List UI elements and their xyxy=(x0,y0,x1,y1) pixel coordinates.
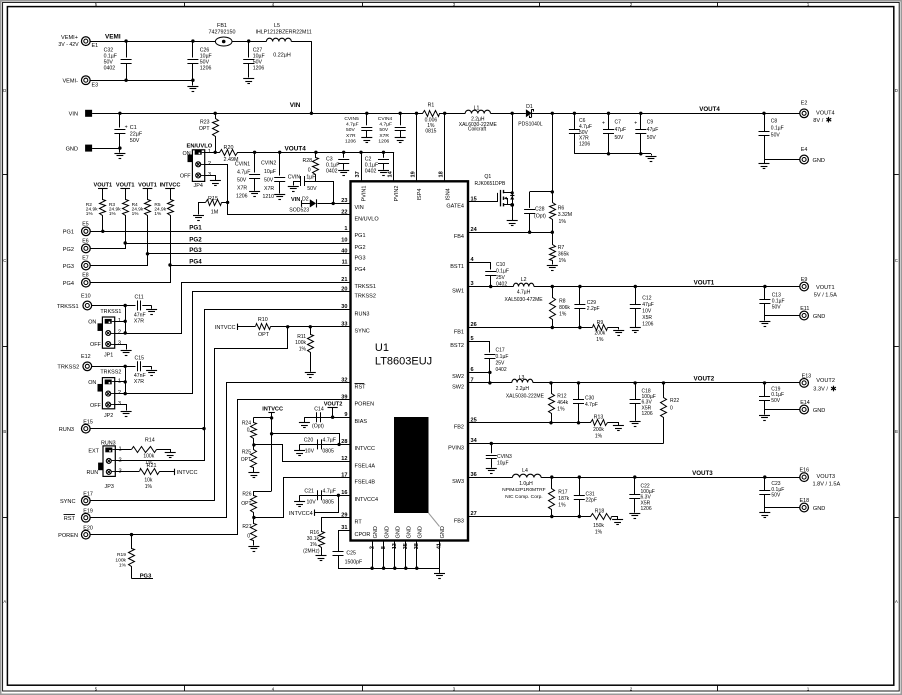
svg-text:1%: 1% xyxy=(299,347,307,353)
svg-text:R17: R17 xyxy=(558,490,567,496)
svg-text:GND: GND xyxy=(440,526,446,538)
junction R23/JP4.1 xyxy=(214,151,217,154)
resistor R21 xyxy=(140,463,160,490)
svg-text:1206: 1206 xyxy=(345,138,356,144)
ground R11 xyxy=(305,373,316,378)
capacitor C19 xyxy=(759,383,784,410)
ground C3 xyxy=(338,171,349,176)
resistor R2 xyxy=(86,189,106,232)
net label VOUT1 xyxy=(694,279,715,286)
svg-text:R1: R1 xyxy=(428,103,435,109)
testpoint E1 xyxy=(81,37,98,49)
svg-text:RST: RST xyxy=(64,516,76,522)
capacitor CVIN3 xyxy=(486,444,512,468)
junction R15/EN route xyxy=(226,201,229,204)
ground Q1 source xyxy=(507,221,518,226)
testpoint E5 xyxy=(82,221,91,235)
svg-text:806k: 806k xyxy=(559,305,570,311)
wire CVIN to ground xyxy=(294,182,301,186)
svg-text:FSEL4A: FSEL4A xyxy=(355,463,376,469)
svg-text:VOUT1: VOUT1 xyxy=(694,279,715,286)
svg-text:GND: GND xyxy=(813,158,825,164)
junction R8/FB1 xyxy=(551,326,554,329)
ground R14 xyxy=(165,453,176,458)
svg-text:SW2: SW2 xyxy=(452,385,464,391)
net label EN/UVLO xyxy=(187,143,213,149)
svg-text:1: 1 xyxy=(118,318,121,324)
svg-text:0: 0 xyxy=(247,533,250,539)
svg-text:1206: 1206 xyxy=(642,411,653,417)
svg-text:4.7µF: 4.7µF xyxy=(323,489,336,495)
svg-text:16: 16 xyxy=(341,490,347,496)
svg-text:1500pF: 1500pF xyxy=(345,560,363,566)
svg-text:E7: E7 xyxy=(82,256,88,262)
wire PVIN1 stub xyxy=(359,151,362,182)
svg-text:TRKSS1: TRKSS1 xyxy=(57,304,79,310)
ground C13 xyxy=(759,316,770,327)
svg-text:1%: 1% xyxy=(558,503,566,509)
svg-text:CVIN2: CVIN2 xyxy=(261,161,276,167)
junction R24/R25 xyxy=(252,443,255,446)
capacitor C6 xyxy=(569,113,592,154)
diode D2 xyxy=(289,196,316,213)
wire E12 row xyxy=(92,366,136,368)
U1 left pin names/numbers xyxy=(341,198,379,538)
capacitor C8 xyxy=(759,113,784,159)
node RUN3 label xyxy=(59,427,74,433)
svg-text:TRKSS2: TRKSS2 xyxy=(355,293,376,299)
svg-text:C8: C8 xyxy=(771,119,778,125)
wire GND pin8 xyxy=(382,541,385,570)
power tap VOUT1 for R4 xyxy=(138,182,157,188)
wire R6 riser xyxy=(552,113,554,202)
svg-text:8V /: 8V / xyxy=(813,118,823,124)
wire PVIN3 xyxy=(468,443,664,445)
svg-text:ON: ON xyxy=(88,380,96,386)
svg-text:39: 39 xyxy=(341,394,347,400)
node VOUT3 labels xyxy=(813,474,841,488)
svg-text:EN/UVLO: EN/UVLO xyxy=(355,217,380,223)
svg-text:C10: C10 xyxy=(496,262,505,268)
svg-text:INTVCC: INTVCC xyxy=(177,470,198,476)
capacitor CVIN1 xyxy=(235,152,260,199)
svg-text:C: C xyxy=(895,258,898,263)
svg-text:50V: 50V xyxy=(615,135,625,141)
svg-text:10V: 10V xyxy=(642,309,652,315)
svg-text:XAL5030-472ME: XAL5030-472ME xyxy=(505,297,544,303)
svg-text:29: 29 xyxy=(341,513,347,519)
svg-text:FB1: FB1 xyxy=(454,329,464,335)
capacitor C14 xyxy=(304,407,350,430)
diode D1 schottky xyxy=(518,104,542,127)
resistor R9 xyxy=(593,320,608,343)
svg-text:OPT: OPT xyxy=(199,126,210,132)
svg-text:INTVCC: INTVCC xyxy=(215,325,236,331)
power tap INTVCC xyxy=(262,406,283,412)
ground JP2 pin3 xyxy=(121,412,132,417)
testpoint E8 xyxy=(82,273,91,287)
wire VOUT3 rail xyxy=(541,477,800,479)
svg-text:E2: E2 xyxy=(801,101,808,107)
svg-text:E17: E17 xyxy=(83,492,93,498)
jumper JP3 xyxy=(87,440,122,490)
svg-text:E8: E8 xyxy=(82,273,88,279)
wire R18 to ground xyxy=(612,517,618,520)
resistor R26 xyxy=(241,492,256,518)
svg-text:D: D xyxy=(3,88,6,93)
svg-text:B: B xyxy=(895,429,898,434)
svg-text:38: 38 xyxy=(414,543,420,549)
svg-text:VOUT2: VOUT2 xyxy=(694,375,715,382)
svg-text:1%: 1% xyxy=(595,433,603,439)
wire PVIN2 stub xyxy=(393,152,395,181)
svg-text:E18: E18 xyxy=(800,498,810,504)
testpoint E19 xyxy=(81,509,92,522)
junction pin16/C21 xyxy=(337,494,340,497)
svg-text:365k: 365k xyxy=(558,252,570,258)
junction C18 top xyxy=(633,381,636,384)
svg-text:Q1: Q1 xyxy=(484,174,491,180)
svg-text:FB4: FB4 xyxy=(454,234,464,240)
svg-text:200k: 200k xyxy=(593,427,604,433)
junction C30/FB2 xyxy=(577,421,580,424)
svg-text:VOUT2: VOUT2 xyxy=(324,402,343,408)
svg-text:PG4: PG4 xyxy=(63,281,74,287)
svg-text:10V: 10V xyxy=(305,449,315,455)
wire BST1 to C10 xyxy=(469,263,491,270)
junction JP1.1/riser xyxy=(124,320,127,323)
svg-text:1210: 1210 xyxy=(263,194,275,200)
svg-text:0402: 0402 xyxy=(496,367,507,373)
junction SYNC/stair xyxy=(286,325,289,328)
resistor R22 xyxy=(661,383,680,444)
testpoint E15 xyxy=(81,420,92,433)
junction R8/SW1 xyxy=(551,285,554,288)
wire SW3 xyxy=(468,477,512,479)
svg-text:CVIN5: CVIN5 xyxy=(344,116,359,122)
junction CVIN4/VIN rail xyxy=(399,112,402,115)
junction CVIN2/rail xyxy=(278,151,281,154)
svg-text:ON: ON xyxy=(183,151,191,157)
junction SW2 tie xyxy=(488,371,491,374)
wire SYNC staircase xyxy=(215,327,288,501)
U1 right pin names/numbers xyxy=(446,197,477,525)
svg-text:EXT: EXT xyxy=(88,448,99,454)
svg-text:CVIN3: CVIN3 xyxy=(497,454,512,460)
svg-text:E20: E20 xyxy=(83,526,93,532)
wire FB1 xyxy=(468,327,592,329)
resistor R19 xyxy=(115,535,134,579)
resistor R14 xyxy=(132,438,157,467)
svg-text:22: 22 xyxy=(341,210,347,216)
svg-text:1206: 1206 xyxy=(236,194,248,200)
junction C23 top xyxy=(763,475,766,478)
svg-text:18: 18 xyxy=(439,171,445,177)
svg-text:L4: L4 xyxy=(522,468,528,474)
svg-text:36: 36 xyxy=(471,472,477,478)
svg-text:1%: 1% xyxy=(109,211,117,217)
svg-text:RT: RT xyxy=(355,520,363,526)
wire R11 to ground xyxy=(310,355,312,372)
svg-text:CVIN1: CVIN1 xyxy=(235,162,250,168)
svg-text:1%: 1% xyxy=(557,407,565,413)
svg-text:1µF: 1µF xyxy=(306,175,315,181)
junction C2/rail xyxy=(382,151,385,154)
svg-text:40: 40 xyxy=(341,249,347,255)
svg-text:TRKSS1: TRKSS1 xyxy=(355,284,376,290)
svg-text:FB2: FB2 xyxy=(454,425,464,431)
capacitor C9 polarized xyxy=(634,113,658,154)
node VOUT1 labels xyxy=(814,285,837,299)
wire JP1 pin3 ground xyxy=(115,345,127,350)
svg-text:50V: 50V xyxy=(307,186,317,192)
svg-text:PDS1040L: PDS1040L xyxy=(518,121,542,127)
svg-text:E16: E16 xyxy=(800,468,810,474)
node TRKSS2 label xyxy=(57,365,79,371)
wire JP4 pin1 to R20 xyxy=(205,152,220,154)
wire JP3 pin3 to R21 xyxy=(115,471,139,473)
ground C23 xyxy=(759,508,770,518)
net flag VIN at D2 xyxy=(291,197,302,207)
wire L5 to VIN rail xyxy=(311,41,313,113)
wire R13 to ground xyxy=(608,423,619,426)
junction C8 xyxy=(762,112,765,115)
svg-text:R13: R13 xyxy=(594,414,604,420)
svg-text:0: 0 xyxy=(670,406,673,412)
svg-text:1: 1 xyxy=(344,226,347,232)
capacitor C26 xyxy=(187,41,211,80)
svg-text:R24: R24 xyxy=(242,420,251,426)
node GND label xyxy=(66,147,78,153)
resistor R23 xyxy=(199,114,219,153)
svg-text:50V: 50V xyxy=(264,178,274,184)
svg-text:0.1µF: 0.1µF xyxy=(496,269,509,275)
svg-text:+: + xyxy=(602,121,605,127)
svg-text:R18: R18 xyxy=(595,508,605,514)
svg-text:GND: GND xyxy=(407,526,413,538)
svg-text:R15: R15 xyxy=(208,196,218,202)
net flag INTVCC4 xyxy=(289,510,315,518)
svg-text:4.7µF: 4.7µF xyxy=(379,122,392,128)
wire R19 to PG3 stub xyxy=(132,578,154,580)
wire GND pin41 xyxy=(439,541,441,569)
svg-text:X7R: X7R xyxy=(379,133,389,139)
ground C14 xyxy=(299,417,310,427)
junction R22 top xyxy=(662,381,665,384)
svg-text:VOUT1: VOUT1 xyxy=(816,285,835,291)
svg-text:GND: GND xyxy=(373,526,379,538)
capacitor C22 xyxy=(629,477,654,512)
junction C29 top xyxy=(578,285,581,288)
svg-text:PG2: PG2 xyxy=(189,236,202,243)
power tap VOUT1 for R2 xyxy=(93,182,112,188)
junction D2/CVIN node xyxy=(332,202,335,205)
ground R15 xyxy=(193,216,204,221)
ground C15 xyxy=(146,371,157,376)
svg-text:33: 33 xyxy=(341,322,347,328)
inductor L5 xyxy=(256,23,312,59)
svg-text:E4: E4 xyxy=(801,147,808,153)
svg-text:1%: 1% xyxy=(559,219,567,225)
wire VOUT4 rail xyxy=(237,152,394,154)
svg-text:BST1: BST1 xyxy=(450,264,464,270)
svg-text:PG1: PG1 xyxy=(189,225,202,232)
svg-text:VIN: VIN xyxy=(69,112,78,118)
svg-text:1%: 1% xyxy=(132,211,140,217)
svg-text:10: 10 xyxy=(341,238,347,244)
junction C26/VEMI xyxy=(191,39,194,42)
pad GND xyxy=(85,145,92,152)
resistor R6 xyxy=(550,203,573,233)
svg-text:PG3: PG3 xyxy=(63,264,74,270)
svg-text:50V: 50V xyxy=(379,127,388,133)
svg-text:VOUT4: VOUT4 xyxy=(285,145,307,152)
svg-text:0815: 0815 xyxy=(425,128,436,134)
svg-text:E5: E5 xyxy=(82,221,88,227)
svg-text:1206: 1206 xyxy=(641,506,652,512)
wire JP3 pin1 to R14 xyxy=(115,449,131,451)
resistor R16 xyxy=(303,530,324,556)
svg-text:VOUT1: VOUT1 xyxy=(93,182,112,188)
resistor R27 xyxy=(242,518,256,546)
junction C32/VEMI xyxy=(124,39,127,42)
testpoint E17 xyxy=(81,492,92,505)
svg-text:VOUT3: VOUT3 xyxy=(817,474,836,480)
net label VEMI xyxy=(105,34,121,41)
wire JP2 riser xyxy=(125,366,127,393)
wire E6 to PG2 xyxy=(91,244,126,249)
ground CVIN1 xyxy=(249,192,260,197)
svg-text:GATE4: GATE4 xyxy=(446,204,464,210)
svg-text:E3: E3 xyxy=(92,83,99,89)
svg-text:FB1: FB1 xyxy=(217,23,227,29)
junction BIAS/VOUT2 xyxy=(331,416,334,419)
wire VIN rail xyxy=(92,113,418,115)
svg-text:JP4: JP4 xyxy=(194,183,203,189)
wire L1 to D1 xyxy=(491,113,526,115)
testpoint E13 xyxy=(800,373,811,387)
net label PG4 xyxy=(189,258,202,265)
resistor R8 xyxy=(550,287,571,328)
svg-text:0402: 0402 xyxy=(326,169,338,175)
svg-text:VEMI-: VEMI- xyxy=(62,79,78,85)
svg-text:17: 17 xyxy=(341,472,347,478)
wire VOUT2 rail xyxy=(533,382,800,384)
svg-text:GND: GND xyxy=(384,526,390,538)
svg-text:FB3: FB3 xyxy=(454,518,464,524)
svg-text:U1: U1 xyxy=(375,342,389,354)
svg-text:GND: GND xyxy=(813,408,825,414)
ground R16 xyxy=(316,556,327,561)
svg-text:PVIN2: PVIN2 xyxy=(394,186,400,202)
resistor R13 xyxy=(591,414,608,439)
svg-text:OPT: OPT xyxy=(258,332,270,338)
wire GND row xyxy=(92,148,120,150)
svg-text:2: 2 xyxy=(369,546,375,549)
svg-text:50V: 50V xyxy=(771,493,781,499)
svg-text:10V: 10V xyxy=(307,500,317,506)
wire RST staircase xyxy=(91,383,351,518)
svg-text:4.7µF: 4.7µF xyxy=(237,170,250,176)
wire E17 row xyxy=(90,500,215,502)
svg-text:0.1µF: 0.1µF xyxy=(771,126,784,132)
node PG2 label xyxy=(63,247,74,253)
svg-text:R9: R9 xyxy=(597,320,604,326)
svg-text:RUN3: RUN3 xyxy=(355,311,370,317)
capacitor C18 xyxy=(630,383,656,421)
ground CVIN4 xyxy=(395,138,406,143)
wire JP1 riser xyxy=(125,306,127,334)
svg-text:INTVCC: INTVCC xyxy=(160,182,181,188)
power tap VOUT1 for R3 xyxy=(116,182,135,188)
resistor R24 xyxy=(242,418,272,445)
inductor L2 xyxy=(505,277,544,303)
svg-text:C1: C1 xyxy=(130,125,137,131)
svg-text:0805: 0805 xyxy=(322,500,334,506)
svg-text:RST: RST xyxy=(355,385,367,391)
svg-text:50V: 50V xyxy=(130,138,140,144)
inductor L4 xyxy=(502,468,545,500)
ground R25 xyxy=(248,473,259,478)
svg-text:GND: GND xyxy=(66,147,78,153)
svg-text:50V: 50V xyxy=(346,127,355,133)
ground below C26 xyxy=(187,80,198,91)
svg-text:NPIM42P1R0MTRF: NPIM42P1R0MTRF xyxy=(502,487,545,493)
svg-text:CVIN4: CVIN4 xyxy=(378,116,393,122)
wire PG3 xyxy=(148,253,351,255)
svg-text:OFF: OFF xyxy=(90,342,101,348)
svg-text:1.0µH: 1.0µH xyxy=(519,481,533,487)
svg-text:50V: 50V xyxy=(237,178,247,184)
U1 thermal pad xyxy=(394,417,429,513)
ground GND bus xyxy=(434,568,445,578)
ground CVIN2 xyxy=(274,195,285,200)
svg-text:19: 19 xyxy=(411,171,417,177)
net label PG2 xyxy=(189,236,202,243)
capacitor C10 xyxy=(485,262,509,288)
wire D1 to VOUT4 xyxy=(532,113,800,115)
wire GND bus xyxy=(338,568,440,570)
ground C2 xyxy=(378,171,389,176)
svg-text:SW3: SW3 xyxy=(452,479,464,485)
resistor R3 xyxy=(109,189,129,244)
resistor R18 xyxy=(591,508,612,535)
svg-text:30: 30 xyxy=(341,304,347,310)
svg-text:13: 13 xyxy=(392,543,398,549)
testpoint E10 xyxy=(81,293,92,310)
svg-text:SYNC: SYNC xyxy=(60,499,76,505)
junction CVIN5/VIN rail xyxy=(365,112,368,115)
svg-text:R19: R19 xyxy=(117,552,126,558)
power tap VOUT2 at BIAS xyxy=(324,402,343,418)
svg-text:50V: 50V xyxy=(772,305,782,311)
svg-text:12: 12 xyxy=(341,456,347,462)
junction C9 xyxy=(639,112,642,115)
svg-text:X7R: X7R xyxy=(134,379,144,385)
junction R28/rail xyxy=(314,151,317,154)
svg-text:X7R: X7R xyxy=(134,318,144,324)
svg-text:742792150: 742792150 xyxy=(209,30,236,36)
svg-text:(Opt): (Opt) xyxy=(312,423,324,429)
svg-text:JP2: JP2 xyxy=(104,413,113,419)
svg-text:47µF: 47µF xyxy=(642,302,654,308)
wire D2 cathode to pin23 xyxy=(317,203,350,205)
svg-text:1%: 1% xyxy=(596,337,604,343)
junction R5/PG4 xyxy=(168,263,171,266)
svg-text:JP1: JP1 xyxy=(104,352,113,358)
svg-text:C17: C17 xyxy=(496,347,505,353)
node TRKSS1 label xyxy=(57,304,79,310)
